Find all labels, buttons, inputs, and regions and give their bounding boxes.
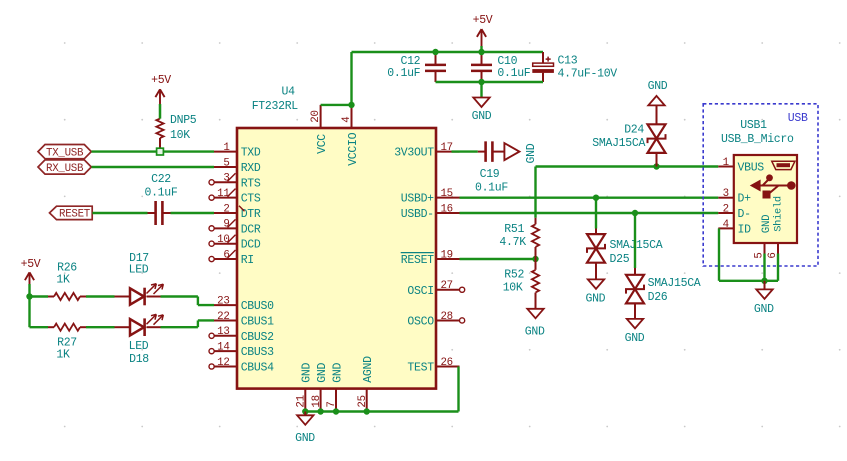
svg-text:R51: R51 — [504, 223, 524, 236]
svg-text:3: 3 — [723, 188, 729, 200]
svg-text:20: 20 — [310, 110, 322, 122]
svg-text:18: 18 — [311, 395, 323, 407]
svg-text:OSCO: OSCO — [407, 315, 434, 328]
svg-text:DNP5: DNP5 — [170, 114, 197, 127]
svg-text:0.1uF: 0.1uF — [497, 67, 530, 80]
svg-text:27: 27 — [441, 280, 453, 292]
svg-text:DCR: DCR — [241, 223, 261, 236]
svg-text:D-: D- — [738, 208, 751, 221]
svg-text:CBUS1: CBUS1 — [241, 315, 274, 328]
svg-text:DCD: DCD — [241, 239, 261, 252]
svg-text:D26: D26 — [648, 291, 668, 304]
svg-text:SMAJ15CA: SMAJ15CA — [592, 137, 645, 150]
svg-text:LED: LED — [129, 340, 149, 353]
svg-text:C19: C19 — [480, 168, 500, 181]
svg-text:GND: GND — [761, 215, 773, 234]
svg-text:RX_USB: RX_USB — [46, 163, 84, 175]
svg-text:2: 2 — [223, 203, 229, 215]
svg-text:9: 9 — [223, 219, 229, 231]
svg-text:CBUS2: CBUS2 — [241, 331, 274, 344]
svg-text:GND: GND — [754, 303, 774, 316]
svg-text:AGND: AGND — [362, 356, 375, 383]
svg-text:USB1: USB1 — [740, 119, 767, 132]
svg-text:GND: GND — [525, 143, 538, 163]
svg-text:USBD-: USBD- — [401, 208, 434, 221]
svg-text:TXD: TXD — [241, 147, 261, 160]
svg-text:0.1uF: 0.1uF — [144, 187, 177, 200]
svg-text:23: 23 — [217, 295, 229, 307]
svg-text:0.1uF: 0.1uF — [475, 182, 508, 195]
svg-text:5: 5 — [223, 157, 229, 169]
svg-text:4.7K: 4.7K — [499, 236, 526, 249]
svg-text:VCCIO: VCCIO — [347, 132, 360, 165]
svg-text:+5V: +5V — [21, 258, 41, 271]
svg-text:28: 28 — [441, 311, 453, 323]
svg-text:RI: RI — [241, 254, 254, 267]
svg-text:VBUS: VBUS — [738, 162, 765, 175]
svg-text:SMAJ15CA: SMAJ15CA — [648, 277, 701, 290]
svg-text:15: 15 — [441, 188, 453, 200]
svg-text:10K: 10K — [503, 282, 523, 295]
svg-text:D25: D25 — [610, 253, 630, 266]
svg-text:GND: GND — [295, 432, 315, 445]
svg-text:GND: GND — [648, 80, 668, 93]
svg-text:TEST: TEST — [407, 362, 434, 375]
svg-text:17: 17 — [441, 142, 453, 154]
svg-text:GND: GND — [472, 110, 492, 123]
svg-text:1K: 1K — [56, 274, 70, 287]
svg-text:USB_B_Micro: USB_B_Micro — [721, 133, 794, 146]
svg-text:C22: C22 — [151, 173, 171, 186]
svg-text:3V3OUT: 3V3OUT — [394, 147, 434, 160]
svg-text:+5V: +5V — [473, 14, 493, 27]
svg-text:6: 6 — [223, 249, 229, 261]
svg-text:RESET: RESET — [59, 209, 91, 221]
svg-text:22: 22 — [217, 311, 229, 323]
svg-text:D18: D18 — [129, 353, 149, 366]
svg-text:C13: C13 — [558, 55, 578, 68]
svg-text:4: 4 — [723, 219, 729, 231]
svg-text:13: 13 — [217, 326, 229, 338]
svg-text:16: 16 — [441, 203, 453, 215]
svg-text:7: 7 — [326, 401, 338, 407]
svg-text:USB: USB — [788, 112, 808, 125]
svg-text:12: 12 — [217, 357, 229, 369]
svg-text:LED: LED — [129, 264, 149, 277]
svg-text:D24: D24 — [624, 124, 644, 137]
svg-text:ID: ID — [738, 223, 752, 236]
svg-text:USBD+: USBD+ — [401, 193, 434, 206]
svg-text:RXD: RXD — [241, 162, 261, 175]
svg-text:GND: GND — [625, 332, 645, 345]
svg-text:0.1uF: 0.1uF — [387, 67, 420, 80]
svg-text:GND: GND — [316, 362, 329, 382]
svg-text:RTS: RTS — [241, 177, 261, 190]
svg-text:D+: D+ — [738, 193, 752, 206]
svg-text:Shield: Shield — [773, 196, 785, 232]
svg-text:CTS: CTS — [241, 193, 261, 206]
svg-text:GND: GND — [525, 326, 545, 339]
svg-text:1: 1 — [723, 157, 729, 169]
svg-text:CBUS4: CBUS4 — [241, 362, 274, 375]
svg-text:11: 11 — [217, 188, 229, 200]
svg-text:U4: U4 — [282, 85, 296, 98]
svg-text:14: 14 — [217, 341, 229, 353]
svg-text:19: 19 — [441, 249, 453, 261]
svg-text:+5V: +5V — [151, 74, 171, 87]
svg-text:TX_USB: TX_USB — [46, 147, 84, 159]
svg-text:4: 4 — [341, 117, 353, 123]
svg-text:1K: 1K — [56, 349, 70, 362]
svg-text:VCC: VCC — [316, 134, 329, 154]
svg-text:GND: GND — [331, 362, 344, 382]
svg-text:RESET: RESET — [401, 254, 434, 267]
svg-text:GND: GND — [301, 362, 314, 382]
svg-text:10: 10 — [217, 234, 229, 246]
svg-text:FT232RL: FT232RL — [252, 100, 299, 113]
svg-text:2: 2 — [723, 204, 729, 216]
svg-text:10K: 10K — [170, 129, 190, 142]
svg-text:R52: R52 — [504, 269, 524, 282]
svg-text:OSCI: OSCI — [407, 285, 433, 298]
svg-text:CBUS0: CBUS0 — [241, 300, 274, 313]
svg-text:21: 21 — [296, 395, 308, 407]
svg-text:CBUS3: CBUS3 — [241, 346, 274, 359]
svg-text:3: 3 — [223, 173, 229, 185]
svg-text:1: 1 — [223, 142, 229, 154]
svg-text:25: 25 — [357, 395, 369, 407]
svg-text:4.7uF-10V: 4.7uF-10V — [558, 67, 618, 80]
svg-text:GND: GND — [585, 293, 605, 306]
